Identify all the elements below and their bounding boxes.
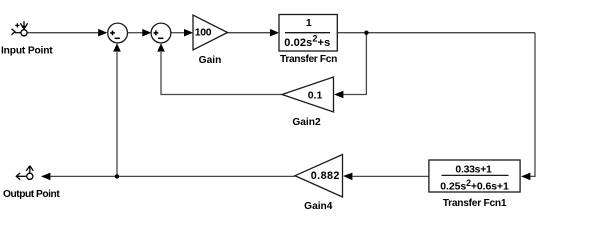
svg-text:Transfer Fcn1: Transfer Fcn1 (443, 198, 507, 209)
svg-text:Gain2: Gain2 (292, 117, 321, 128)
svg-text:0.882: 0.882 (311, 170, 340, 182)
svg-text:100: 100 (195, 27, 212, 39)
svg-text:Input Point: Input Point (1, 46, 53, 57)
svg-text:0.33s+1: 0.33s+1 (455, 164, 492, 176)
svg-text:Transfer Fcn: Transfer Fcn (280, 54, 337, 65)
svg-text:0.25s2+0.6s+1: 0.25s2+0.6s+1 (440, 178, 509, 193)
svg-text:Output Point: Output Point (3, 189, 60, 200)
svg-text:Gain: Gain (199, 55, 222, 66)
svg-text:1: 1 (306, 17, 312, 29)
svg-text:0.1: 0.1 (308, 90, 323, 102)
svg-text:0.02s2+s: 0.02s2+s (284, 34, 330, 49)
svg-text:Gain4: Gain4 (304, 201, 333, 211)
